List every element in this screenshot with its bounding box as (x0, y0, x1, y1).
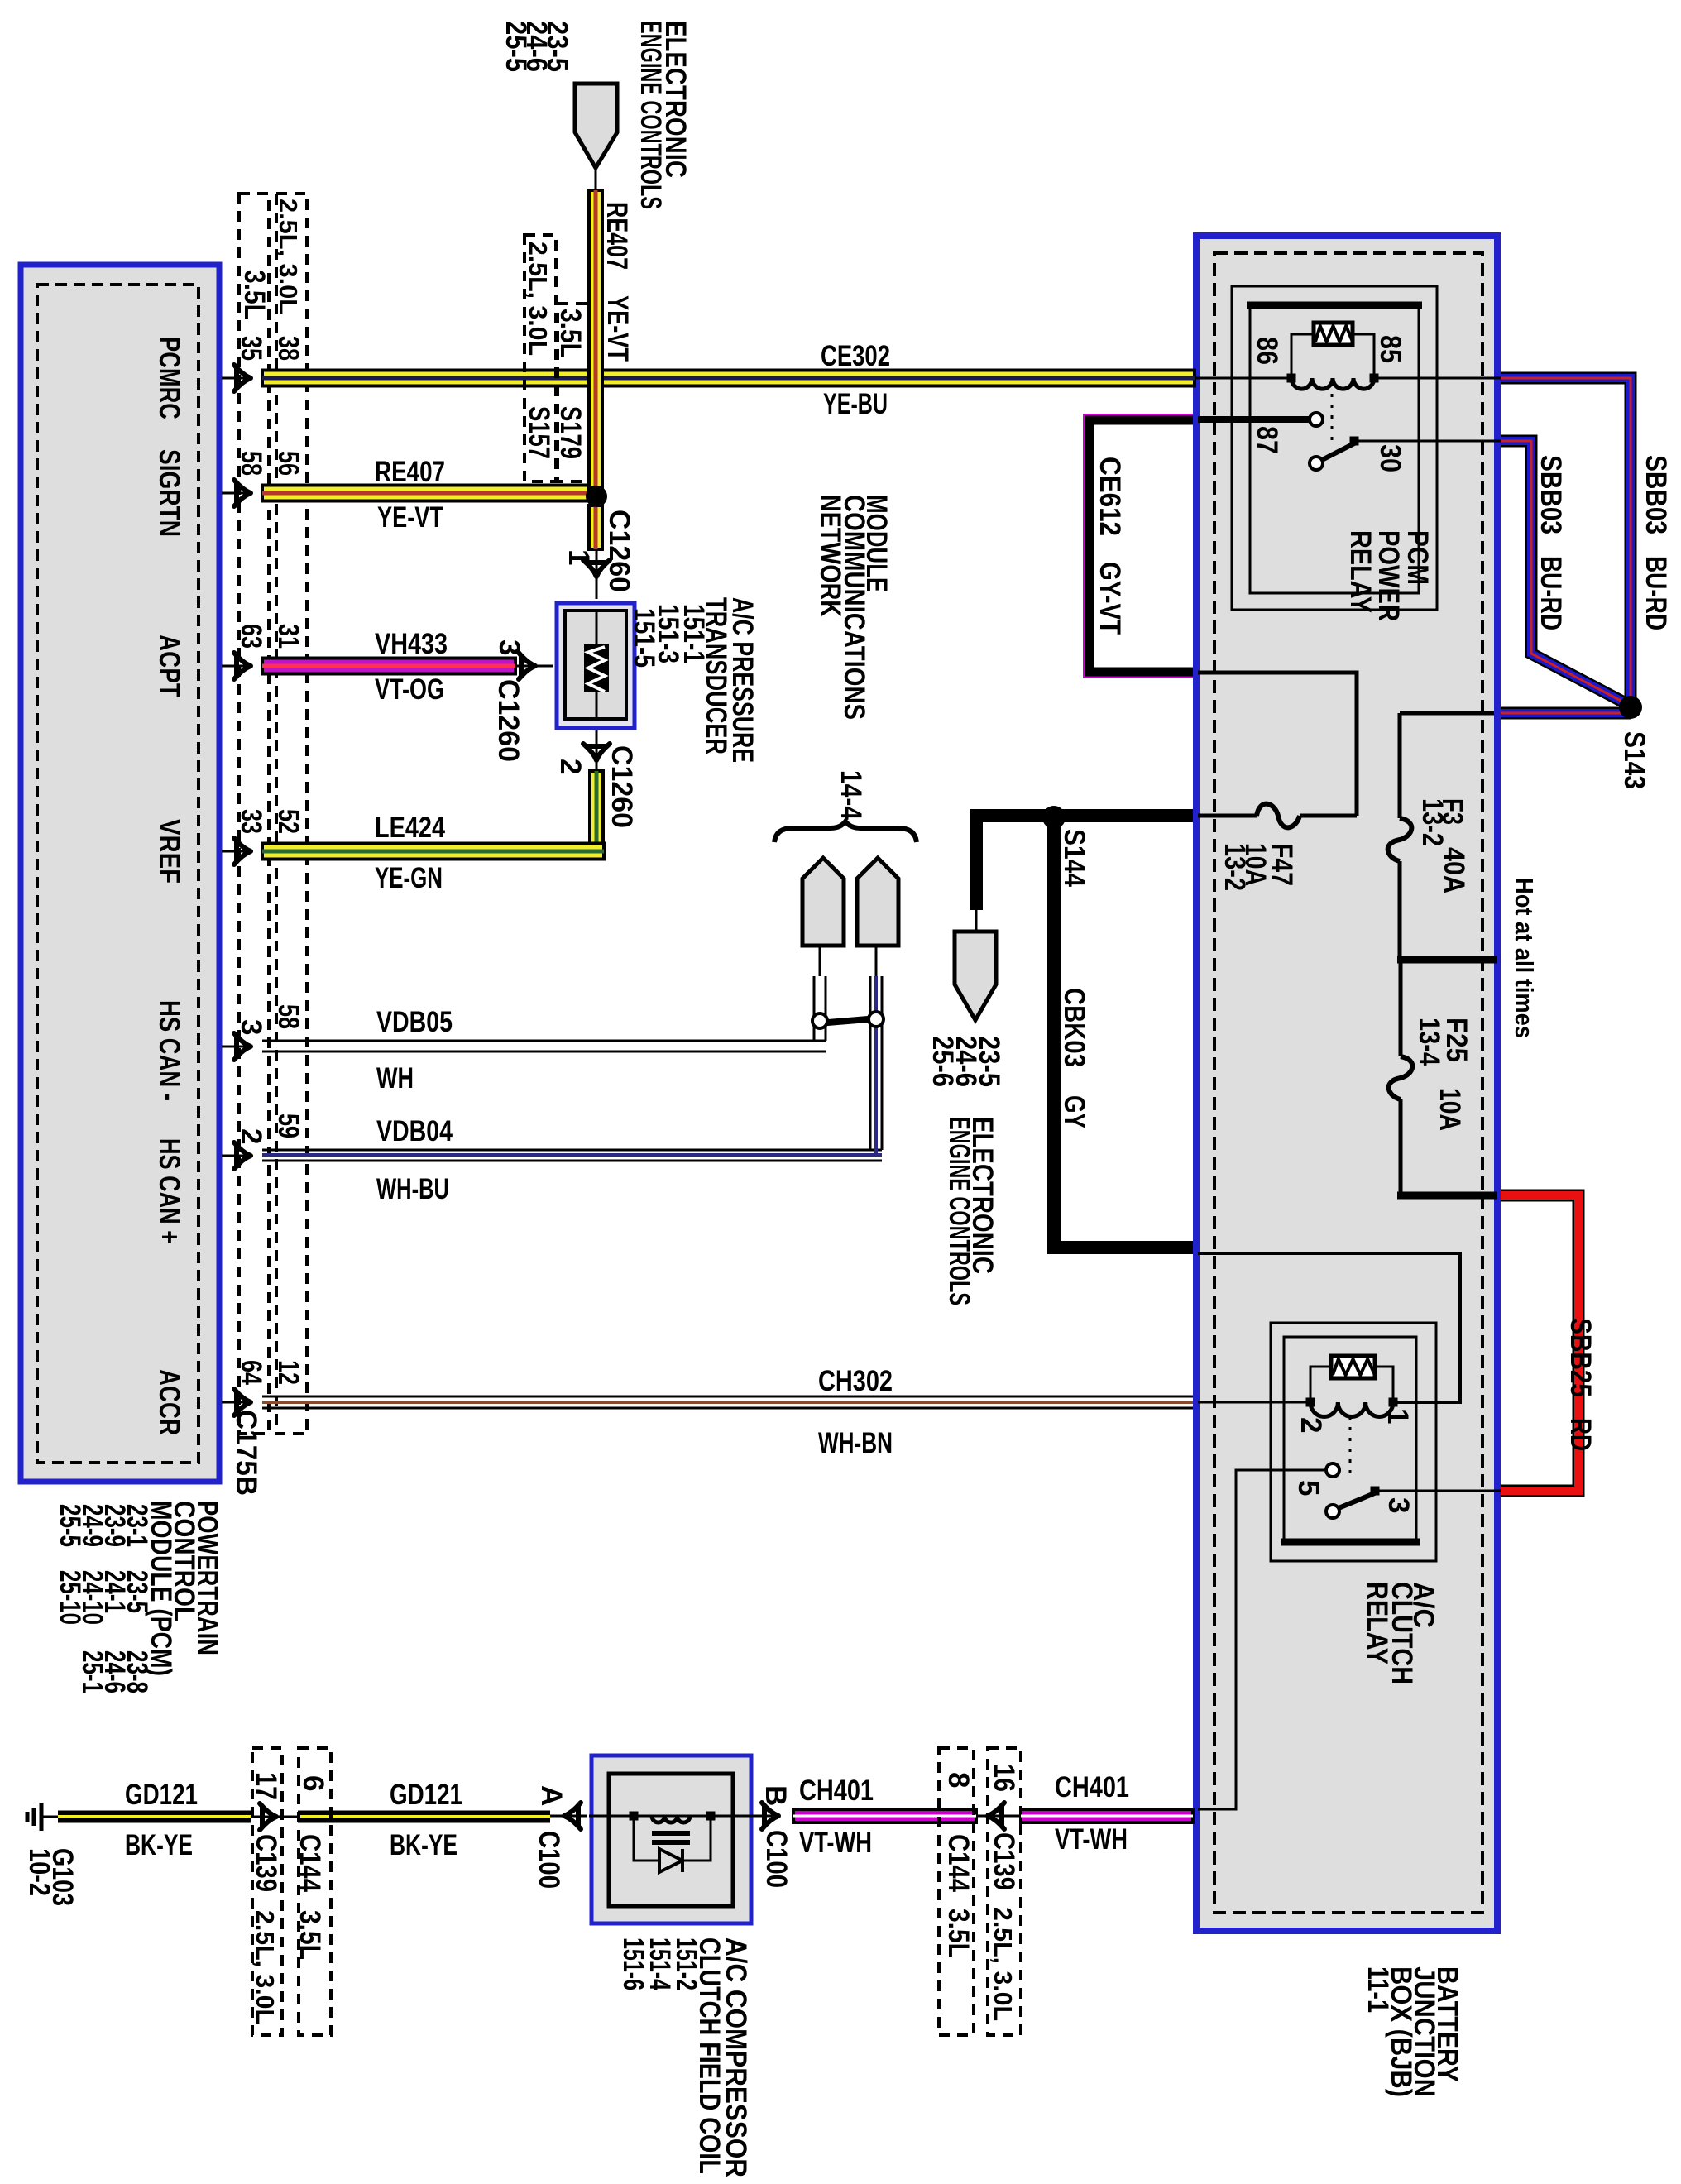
svg-text:PCM: PCM (1401, 530, 1434, 585)
wire RE407 YE-VT horizontal (262, 486, 589, 501)
pin arrow (234, 1142, 251, 1169)
A/C compressor clutch field coil (550, 1815, 587, 1818)
svg-text:C1260: C1260 (606, 745, 638, 828)
svg-text:RE407: RE407 (601, 202, 633, 270)
svg-text:10-2: 10-2 (23, 1848, 55, 1896)
svg-text:WH: WH (376, 1062, 414, 1094)
fuse F3 40A (1388, 818, 1412, 861)
brace over twisted pair (774, 821, 917, 842)
svg-text:VT-OG: VT-OG (375, 673, 444, 706)
svg-text:B: B (759, 1785, 792, 1806)
svg-text:C100: C100 (760, 1830, 793, 1888)
splice S144 (1042, 806, 1066, 829)
pin arrow (234, 1033, 251, 1060)
svg-text:VDB04: VDB04 (376, 1115, 453, 1147)
svg-text:C139: C139 (988, 1832, 1020, 1890)
pin stub wire (222, 1155, 248, 1157)
splice junction S179/S157 (586, 486, 607, 507)
svg-text:8: 8 (942, 1772, 975, 1788)
wire stub pin 3 (515, 665, 553, 668)
Powertrain Control Module (PCM) box (21, 265, 219, 1482)
transducer inner box (565, 611, 626, 719)
resistor stub left (1291, 334, 1314, 376)
splice box 2.5L,3.0L S157 (524, 235, 556, 481)
svg-text:BK-YE: BK-YE (390, 1829, 457, 1861)
svg-text:BU-RD: BU-RD (1640, 556, 1672, 630)
svg-text:Hot at all times: Hot at all times (1510, 878, 1539, 1038)
pin stub wire (222, 1046, 248, 1048)
svg-text:C144: C144 (294, 1834, 326, 1892)
svg-text:16: 16 (988, 1764, 1020, 1792)
svg-text:25-1: 25-1 (76, 1650, 108, 1693)
svg-text:SIGRTN: SIGRTN (153, 449, 185, 537)
svg-text:2.5L, 3.0L: 2.5L, 3.0L (274, 199, 303, 314)
AC switch blade end (1326, 1505, 1339, 1518)
svg-text:HS CAN -: HS CAN - (153, 1000, 185, 1101)
svg-text:C175B: C175B (230, 1410, 262, 1496)
pin 87 line (1198, 416, 1310, 423)
transducer internal wire top (596, 611, 598, 644)
svg-text:GD121: GD121 (125, 1779, 198, 1811)
wire SBB03 return to F3 (1501, 707, 1631, 720)
terminal 5 (1326, 1463, 1339, 1477)
pin stub wire (222, 665, 248, 668)
fuse F25 10A (1389, 1056, 1413, 1099)
svg-text:YE-VT: YE-VT (601, 295, 634, 362)
relay inner box thick bottom (1281, 1539, 1420, 1546)
BJB dashed border (1214, 253, 1482, 1913)
arrow GD121 inline (260, 1803, 276, 1830)
svg-text:NETWORK: NETWORK (814, 495, 846, 617)
svg-text:VT-WH: VT-WH (1055, 1823, 1128, 1856)
internal line CE612 to F47 (1198, 673, 1357, 816)
svg-text:SBB03: SBB03 (1640, 455, 1672, 534)
pin arrow (234, 365, 251, 391)
wire GD121 BK-YE segment 1 (58, 1811, 251, 1823)
svg-text:33: 33 (235, 809, 267, 834)
svg-text:RELAY: RELAY (1344, 530, 1377, 613)
terminal 30 contact (1350, 437, 1359, 446)
svg-text:VDB05: VDB05 (376, 1006, 453, 1038)
svg-text:SBB03: SBB03 (1535, 455, 1567, 534)
svg-text:VH433: VH433 (375, 628, 448, 660)
F25 to SBB25 bar (1397, 1192, 1497, 1200)
pin 5 line to CH401 (1198, 1470, 1326, 1809)
stub at C139/C144 (251, 1816, 298, 1818)
svg-text:A: A (535, 1785, 568, 1806)
F3 fuse branch (1400, 711, 1494, 716)
svg-text:VREF: VREF (153, 819, 185, 884)
svg-text:C139: C139 (250, 1834, 282, 1892)
svg-text:52: 52 (272, 809, 304, 834)
wire CH302 WH-BN (twin lines + brown) (262, 1396, 1193, 1398)
wire stub from connector (595, 168, 597, 192)
hot at all times bar (1397, 956, 1497, 964)
relay inner box thick top (1247, 302, 1422, 309)
clutch plate 2 (652, 1840, 690, 1845)
svg-text:3: 3 (235, 1019, 267, 1035)
svg-text:CH401: CH401 (1055, 1771, 1129, 1803)
svg-text:SBB25: SBB25 (1564, 1318, 1597, 1397)
pin arrow (234, 1389, 251, 1415)
off-page pentagon VDB04 (857, 858, 898, 946)
splice box 3.5L S179 (558, 304, 590, 481)
wire CH401 VT-WH segment 1 (793, 1809, 976, 1822)
pin stub wire (222, 850, 248, 853)
svg-text:WH-BU: WH-BU (376, 1173, 449, 1205)
fuse F47 10A (1257, 804, 1300, 828)
svg-text:S143: S143 (1618, 731, 1650, 789)
off-page pentagon VDB05 (802, 858, 844, 946)
wire SBB03 BU-RD outer (1501, 378, 1631, 702)
svg-text:HS CAN +: HS CAN + (153, 1138, 185, 1243)
svg-text:6: 6 (297, 1775, 329, 1791)
svg-text:3: 3 (493, 639, 525, 655)
transducer internal wire bottom (596, 692, 598, 719)
svg-text:3: 3 (1382, 1497, 1415, 1513)
switch blade (1322, 443, 1356, 460)
arrow C1260 pin 2 (583, 744, 610, 760)
pin arrow (234, 480, 251, 506)
svg-text:CE612: CE612 (1094, 457, 1126, 536)
svg-text:YE-BU: YE-BU (823, 388, 888, 420)
pin stub wire (222, 1401, 248, 1404)
off-page connector arrow ELECTRONIC ENGINE CONTROLS (575, 84, 617, 168)
wire SBB25 RD (1501, 1195, 1578, 1491)
svg-text:ACPT: ACPT (153, 635, 185, 697)
resistor stub right (1353, 334, 1374, 376)
relay coil (1291, 378, 1374, 389)
connector columns C144/C139 right (939, 1748, 974, 2035)
svg-text:2: 2 (235, 1128, 267, 1144)
terminal 3 contact (1371, 1487, 1380, 1496)
svg-text:VT-WH: VT-WH (799, 1827, 872, 1859)
svg-text:C100: C100 (533, 1831, 565, 1889)
arrow C100 A (564, 1803, 581, 1829)
stub to pentagon (975, 910, 978, 932)
svg-text:10A: 10A (1434, 1088, 1466, 1131)
svg-text:25-5: 25-5 (54, 1504, 86, 1547)
splice S143 (1619, 696, 1642, 719)
wire VDB04 WH-BU (twin lines + blue) (262, 1149, 882, 1152)
svg-text:86: 86 (1251, 337, 1283, 365)
wire CE302 YE-BU (262, 371, 1195, 386)
svg-text:25-5: 25-5 (500, 21, 532, 72)
svg-text:3.5L: 3.5L (942, 1909, 975, 1958)
diode bar (681, 1849, 684, 1872)
svg-text:CBK03: CBK03 (1058, 988, 1090, 1067)
terminal 86 (1287, 374, 1296, 383)
wire RE407 YE-VT vertical (589, 190, 602, 487)
svg-text:58: 58 (235, 451, 267, 476)
pin arrow (234, 653, 251, 679)
svg-text:S157: S157 (523, 406, 555, 459)
ground G103 (40, 1803, 44, 1831)
svg-text:59: 59 (272, 1114, 304, 1138)
svg-text:1: 1 (563, 549, 595, 565)
arrow CH401 inline (988, 1803, 1004, 1829)
coil terminal right (706, 1812, 716, 1821)
svg-text:WH-BN: WH-BN (818, 1427, 893, 1459)
svg-text:5: 5 (1292, 1480, 1324, 1496)
svg-text:C1260: C1260 (492, 679, 524, 762)
relay actuator dotted (1331, 394, 1334, 440)
svg-text:2.5L, 3.0L: 2.5L, 3.0L (524, 242, 553, 356)
terminal 2 (1306, 1398, 1315, 1407)
svg-text:ACCR: ACCR (153, 1369, 185, 1435)
wire SBB03 BU-RD inner (1501, 441, 1626, 703)
terminal 1 (1389, 1398, 1398, 1407)
svg-text:35: 35 (235, 336, 267, 361)
terminal 87 (1310, 413, 1323, 426)
svg-text:C144: C144 (942, 1834, 975, 1892)
transducer sensor element (584, 644, 609, 692)
arrow C100 B (762, 1803, 778, 1829)
coil terminal left (630, 1812, 639, 1821)
wire to transducer pin 1 (596, 549, 598, 599)
AC relay actuator dotted (1349, 1416, 1352, 1478)
relay resistor (1314, 323, 1353, 345)
svg-text:CH302: CH302 (818, 1365, 893, 1397)
wire GD121 BK-YE segment 2 (298, 1811, 550, 1823)
svg-text:2.5L, 3.0L: 2.5L, 3.0L (251, 1910, 280, 2024)
svg-text:30: 30 (1374, 444, 1406, 472)
svg-text:3.5L: 3.5L (238, 270, 271, 319)
svg-text:56: 56 (272, 451, 304, 476)
wire LE424 YE-GN (590, 771, 603, 844)
pin 2 line to CH302 (1198, 1401, 1310, 1404)
svg-text:38: 38 (272, 336, 304, 361)
coil feed line from CE302 (1195, 377, 1291, 380)
svg-text:GY-VT: GY-VT (1094, 562, 1126, 635)
svg-text:63: 63 (235, 624, 267, 649)
wire RE407 to C1260 pin 1 (589, 505, 602, 549)
svg-text:2: 2 (554, 759, 587, 774)
wire CBK03 GY thick (976, 816, 1193, 910)
wire CE612 GY-VT loop (1085, 415, 1193, 677)
clutch plate 1 (652, 1831, 690, 1836)
svg-text:12: 12 (272, 1360, 304, 1385)
svg-text:C1260: C1260 (603, 510, 635, 592)
svg-text:BK-YE: BK-YE (125, 1829, 193, 1861)
arrow C1260 pin 3 (519, 653, 535, 679)
svg-text:13-2: 13-2 (1219, 843, 1251, 891)
CBK03 internal to coil pin 1 (1198, 1253, 1460, 1402)
svg-text:S144: S144 (1058, 829, 1090, 887)
wire CH401 VT-WH segment 2 (1021, 1809, 1193, 1822)
svg-text:2.5L, 3.0L: 2.5L, 3.0L (989, 1907, 1018, 2021)
wire VDB05 WH (twin lines) (262, 1040, 826, 1042)
svg-text:25-6: 25-6 (927, 1036, 959, 1087)
svg-text:151-6: 151-6 (617, 1937, 649, 1990)
connector column 3.5L (239, 194, 269, 1434)
svg-text:YE-VT: YE-VT (377, 501, 443, 534)
svg-text:85: 85 (1374, 335, 1406, 363)
clutch diode branch (634, 1816, 659, 1861)
svg-text:S179: S179 (554, 406, 587, 459)
svg-text:25-10: 25-10 (54, 1570, 86, 1625)
AC relay resistor (1331, 1356, 1375, 1378)
svg-text:CH401: CH401 (799, 1774, 874, 1807)
svg-text:151-5: 151-5 (628, 608, 660, 668)
off-page pentagon ELECTRONIC ENGINE CONTROLS 2 (955, 932, 996, 1020)
svg-text:31: 31 (272, 624, 304, 649)
svg-text:40A: 40A (1438, 847, 1470, 893)
AC relay coil (1310, 1402, 1393, 1417)
PCM dashed border (37, 285, 199, 1463)
wire VH433 VT-OG (262, 659, 515, 674)
coil feed line (589, 1815, 780, 1818)
pin 85 line to SBB03 (1374, 377, 1501, 380)
connector column 2.5L,3.0L (276, 194, 307, 1434)
svg-text:87: 87 (1251, 426, 1283, 454)
pin 3 line to SBB25 (1375, 1490, 1501, 1492)
svg-text:13-2: 13-2 (1416, 798, 1449, 846)
svg-text:RD: RD (1564, 1418, 1597, 1451)
A/C pressure transducer box (557, 603, 635, 728)
wire LE424 YE-GN horizontal (262, 844, 604, 860)
svg-text:BU-RD: BU-RD (1535, 556, 1567, 630)
clutch coil (652, 1816, 690, 1822)
svg-text:13-4: 13-4 (1413, 1018, 1445, 1066)
svg-text:ENGINE CONTROLS: ENGINE CONTROLS (943, 1117, 975, 1305)
svg-text:17: 17 (250, 1772, 282, 1800)
A/C clutch relay (1271, 1323, 1436, 1561)
svg-text:CE302: CE302 (821, 340, 890, 372)
pin stub wire (222, 492, 248, 495)
svg-text:64: 64 (235, 1360, 267, 1385)
svg-text:RE407: RE407 (375, 456, 445, 488)
svg-text:14-4: 14-4 (835, 770, 867, 820)
svg-text:2: 2 (1295, 1417, 1327, 1433)
svg-text:ENGINE CONTROLS: ENGINE CONTROLS (635, 21, 667, 209)
pin 30 line to SBB03 (1354, 440, 1501, 443)
svg-text:3.5L: 3.5L (554, 309, 587, 358)
svg-text:PCMRC: PCMRC (153, 337, 185, 419)
svg-text:LE424: LE424 (375, 812, 445, 844)
wire stub pin 2 (596, 730, 598, 769)
Battery Junction Box (BJB) (1196, 236, 1497, 1931)
twisted pair loop symbols (818, 1018, 878, 1023)
svg-text:RELAY: RELAY (1361, 1582, 1393, 1664)
switch blade end (1310, 457, 1323, 470)
terminal 85 (1370, 374, 1379, 383)
arrow C1260 pin 1 (583, 560, 610, 577)
pin stub wire (222, 377, 248, 380)
svg-text:YE-GN: YE-GN (375, 862, 443, 894)
connector columns C139/C144 left (252, 1748, 282, 2035)
svg-text:GY: GY (1058, 1095, 1090, 1128)
pin arrow (234, 838, 251, 864)
svg-text:3.5L: 3.5L (294, 1910, 326, 1960)
AC switch blade (1339, 1492, 1377, 1508)
svg-text:1: 1 (1382, 1408, 1414, 1424)
PCM power relay (1232, 286, 1437, 610)
svg-text:GD121: GD121 (390, 1779, 462, 1811)
svg-text:11-1: 11-1 (1362, 1966, 1394, 2013)
svg-text:58: 58 (272, 1004, 304, 1029)
F25 fuse branch (1399, 963, 1403, 1056)
